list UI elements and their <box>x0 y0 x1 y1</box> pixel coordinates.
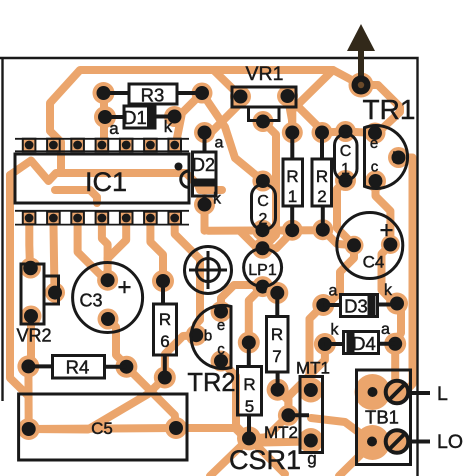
IC1 pin pad bottom6 <box>144 212 157 225</box>
pads R2 <box>312 122 333 143</box>
svg-text:1: 1 <box>341 161 350 178</box>
wire R5 bottom to MT bottom pad <box>249 438 311 442</box>
IC1 pin pad bottom5 <box>120 212 133 225</box>
pads VR2 <box>20 258 41 279</box>
lamp LP1 <box>244 249 282 287</box>
diode D4 <box>325 321 395 354</box>
wire C4 left to D3 left <box>323 245 354 305</box>
resistor R2 <box>312 133 332 230</box>
wire VR1 left to supply trace <box>214 70 241 97</box>
wire C4 right to D3 right <box>382 245 398 305</box>
pads TB1 <box>355 374 391 410</box>
capacitor C3 <box>73 263 143 333</box>
wire C3 bottom to R4 right <box>108 319 126 365</box>
wire D4 left to MT2 pad <box>288 344 325 415</box>
wire LP1 bottom to R5 top <box>249 287 263 343</box>
svg-text:k: k <box>164 117 173 136</box>
svg-text:k: k <box>331 322 340 339</box>
svg-text:VR1: VR1 <box>246 63 284 85</box>
wire VR1 right to R2 top <box>288 96 323 133</box>
pads TR1 e b c <box>365 123 386 144</box>
svg-text:a: a <box>381 321 390 338</box>
wire arrow pad to TR1 e <box>361 85 400 133</box>
wire D4 right to TB1 top blob <box>391 344 399 385</box>
diode D2 <box>192 133 224 208</box>
wire IC pin5 bottom join <box>108 217 127 259</box>
wire C1 bottom to C4 left <box>337 181 354 246</box>
svg-text:k: k <box>384 282 393 299</box>
wire D3 right to D4 right <box>395 304 401 344</box>
pads R7 <box>266 282 288 304</box>
wire VR1 left to D2 a <box>205 97 241 133</box>
IC1 pin pad bottom3 <box>71 212 84 225</box>
svg-text:VR2: VR2 <box>16 326 51 346</box>
svg-text:1: 1 <box>288 187 297 206</box>
capacitor C1 <box>335 134 358 180</box>
svg-text:2: 2 <box>317 187 326 206</box>
svg-text:R: R <box>286 167 298 186</box>
resistor R7 <box>267 293 289 390</box>
pads C5 <box>18 418 40 440</box>
node LO <box>411 440 431 444</box>
wire TR1 b to right bus to TB1 <box>398 158 413 399</box>
wire D2 k to bottoms rail <box>201 205 209 231</box>
svg-text:e: e <box>370 135 378 152</box>
capacitor C5 <box>19 394 187 460</box>
svg-text:D2: D2 <box>192 155 215 175</box>
svg-text:C4: C4 <box>363 253 385 272</box>
wire R1 bottom to LP1 top <box>263 230 293 248</box>
wire bottoms rail to LP1 top <box>240 231 263 248</box>
svg-text:MT1: MT1 <box>296 359 330 378</box>
pads TR2 e b c <box>211 301 232 322</box>
wire left bus with zigzag under IC1 <box>10 175 28 396</box>
svg-text:+: + <box>379 217 393 244</box>
pads R4 <box>17 355 39 377</box>
wire R4 left to C5 left <box>24 366 32 429</box>
potentiometer VR2 <box>16 264 58 346</box>
wire R4 right to C5 right <box>126 367 176 428</box>
svg-text:R: R <box>159 310 171 329</box>
pads R3 <box>93 82 115 104</box>
wire R3 right to C2 top <box>202 93 263 181</box>
wire IC pin3 bottom to C3 top <box>78 217 108 281</box>
terminal block TB1 <box>357 370 411 465</box>
svg-text:LO: LO <box>437 431 463 453</box>
svg-text:TR2: TR2 <box>187 369 235 397</box>
node L <box>411 391 431 395</box>
svg-text:IC1: IC1 <box>85 167 127 197</box>
pads LP1 <box>252 238 273 259</box>
wire TR1 c to C4 right <box>376 181 391 245</box>
svg-text:a: a <box>109 119 119 138</box>
resistor R4 <box>28 356 126 379</box>
mounting hole crosshair <box>185 247 232 294</box>
wire IC pin1 bottom to VR2 top <box>25 218 34 268</box>
transistor TR2 <box>191 305 231 368</box>
pads C2 <box>252 171 273 192</box>
pads C3 <box>97 270 118 291</box>
svg-text:C5: C5 <box>91 419 113 438</box>
op-amp IC1 <box>15 154 189 203</box>
wire IC pin4 bottom to C3 top <box>102 217 108 281</box>
svg-text:a: a <box>215 135 224 152</box>
IC1 pin pad bottom2 <box>47 212 60 225</box>
wire LP1 bottom to R7 top <box>263 287 278 293</box>
resistor R5 <box>238 343 262 439</box>
svg-text:R: R <box>243 375 255 394</box>
wire IC pin6 bottom to R6 top <box>150 217 163 282</box>
svg-text:7: 7 <box>272 347 281 366</box>
wire TR2 c to R5 bottom <box>221 361 249 438</box>
wire MT to TB1 bottom blob <box>311 418 373 443</box>
svg-text:c: c <box>371 159 379 176</box>
wire C5 right to R5 bottom <box>176 428 249 438</box>
svg-text:D4: D4 <box>352 333 376 354</box>
pads R5 <box>238 332 260 354</box>
wire VR1 wiper to LP1 top <box>263 122 276 249</box>
wire TR1 e to C1 top <box>322 132 375 134</box>
potentiometer VR1 <box>232 63 296 121</box>
board outline <box>0 58 418 476</box>
svg-text:R: R <box>271 325 283 344</box>
svg-text:b: b <box>204 328 212 345</box>
svg-text:LP1: LP1 <box>248 262 277 279</box>
pads D3 <box>312 294 334 316</box>
IC socket strip rails bottom row <box>15 210 189 212</box>
pads D2 <box>194 122 215 143</box>
svg-text:TB1: TB1 <box>365 407 399 428</box>
svg-text:6: 6 <box>160 332 169 351</box>
svg-text:2: 2 <box>259 211 268 228</box>
wire TB1 bottom blob off board <box>339 443 373 476</box>
wire IC pin2 bottom to VR2 wiper <box>53 218 54 293</box>
pads MT1 MT2 <box>298 378 323 403</box>
svg-text:D3: D3 <box>344 296 368 317</box>
wire R5 bottom off board <box>210 438 249 476</box>
IC1 pin pad top6 <box>144 139 157 152</box>
svg-text:D1: D1 <box>123 107 147 128</box>
IC1 pin pad bottom1 <box>23 212 36 225</box>
svg-text:C3: C3 <box>79 291 102 311</box>
svg-text:+: + <box>117 274 131 301</box>
wire C5 internal <box>29 428 176 429</box>
IC1 pin pad top3 <box>71 139 84 152</box>
wire R7 bottom to MT2 pad <box>278 390 289 416</box>
wire supply: arrow pad to IC pin2 top <box>50 70 361 173</box>
svg-text:5: 5 <box>245 397 254 416</box>
svg-text:g: g <box>307 449 316 468</box>
transistor TR1 <box>365 126 408 189</box>
wire zigzag into IC1 <box>10 161 222 191</box>
IC1 pin pad top1 <box>23 139 36 152</box>
diode D3 <box>323 282 397 317</box>
svg-text:b: b <box>392 150 400 167</box>
wire D3 left to MT1 pad <box>310 305 324 390</box>
IC1 pin pad bottom7 <box>168 212 181 225</box>
svg-text:R4: R4 <box>66 357 90 378</box>
wire VR2 bottom to R4 left <box>27 316 35 366</box>
diode D1 <box>105 106 175 138</box>
wire MT2 pad to R5 bottom <box>249 415 288 438</box>
wire R1 top to T1 bend <box>292 70 333 133</box>
capacitor C4 <box>337 213 403 279</box>
wire C2 R1 R2 bottoms <box>208 226 323 235</box>
IC1 pin pad bottom4 <box>96 212 109 225</box>
wire R6 bottom to C5 left <box>29 378 165 430</box>
svg-text:CSR1: CSR1 <box>229 445 301 475</box>
pads D1 <box>94 106 116 128</box>
wire short under IC1 <box>55 190 97 203</box>
thermal switch MT1 MT2 <box>264 359 330 469</box>
resistor R1 <box>283 133 303 231</box>
IC1 pin pad top7 <box>168 139 181 152</box>
resistor R3 <box>104 84 203 106</box>
IC1 pin pad top4 <box>96 139 109 152</box>
wire R2 bottom to C4 left <box>323 230 354 246</box>
pads R6 <box>152 270 174 292</box>
svg-text:e: e <box>217 317 225 334</box>
supply arrow <box>347 24 375 95</box>
svg-text:MT2: MT2 <box>264 423 298 442</box>
wire R3 right to IC pin7 top <box>176 93 202 143</box>
pad supply arrow <box>349 73 374 98</box>
IC socket strip rails top row <box>15 138 189 140</box>
svg-text:C: C <box>340 143 352 160</box>
pads C4 <box>345 236 364 255</box>
pads C1 <box>335 121 356 142</box>
svg-text:L: L <box>437 383 448 405</box>
IC1 pin pad top2 <box>47 139 60 152</box>
svg-text:R: R <box>316 167 328 186</box>
svg-text:k: k <box>213 191 222 208</box>
wire TR2 b to R6 bottom <box>165 335 196 377</box>
capacitor C2 <box>252 185 276 230</box>
wire D1 a R3 L pin4 top column <box>100 93 108 145</box>
wire VR1 right to R1 top <box>288 96 293 133</box>
IC1 pin pad top5 <box>120 139 133 152</box>
pads R1 <box>282 122 303 143</box>
resistor R6 <box>154 281 177 378</box>
wire IC pin7 bottom to TR2 b <box>175 217 200 336</box>
wire TR2 e to LP1 bottom <box>221 285 263 312</box>
svg-text:a: a <box>329 283 338 300</box>
svg-text:TR1: TR1 <box>363 94 416 125</box>
pads VR1 <box>230 86 251 107</box>
svg-text:C: C <box>257 193 269 210</box>
wire R5 bottom off board right <box>251 440 285 474</box>
svg-text:c: c <box>217 341 225 358</box>
svg-text:R3: R3 <box>141 85 165 106</box>
pads D4 <box>314 333 336 355</box>
